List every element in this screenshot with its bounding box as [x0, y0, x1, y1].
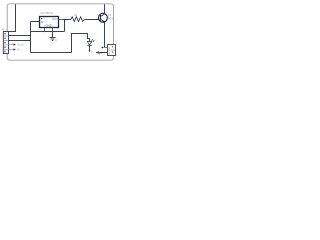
resistor R1	[71, 17, 85, 22]
connector pin5 stub with net arrow	[9, 48, 21, 52]
wire bottom ground bus	[31, 52, 72, 54]
U1 bottom pin stubs	[44, 28, 46, 32]
wire resistor to base	[84, 19, 99, 21]
svg-text:OUT: OUT	[52, 17, 58, 21]
junction gnd stem	[52, 31, 54, 33]
junction OUT/riser	[64, 19, 66, 21]
wire connector pin3	[9, 40, 32, 42]
wire vertical x30.5	[30, 22, 32, 53]
frame	[7, 4, 113, 60]
wire emitter down to J2 pin1	[105, 22, 108, 48]
wire vcc vertical from frame to connector pin1	[9, 4, 16, 31]
connector J1	[3, 32, 8, 54]
wire LED feed from bus	[72, 34, 90, 53]
ground symbol under U1	[49, 32, 55, 41]
wire bus to J2 pin2 with net arrow	[96, 51, 108, 55]
svg-text:GND: GND	[46, 23, 52, 27]
stub J2 pin1	[102, 47, 108, 49]
LED cathode lead with net arrow down	[89, 46, 94, 54]
wire connector pin2 to vertical bus	[9, 35, 31, 37]
junction emitter/stub	[101, 47, 103, 49]
transistor Q1	[98, 13, 107, 22]
connector J2	[108, 45, 116, 56]
LED D1	[87, 39, 94, 46]
svg-text:IN: IN	[41, 20, 44, 24]
svg-text:LM7805C: LM7805C	[40, 11, 54, 15]
wire to IC IN pin	[31, 21, 40, 23]
svg-text:Sond+: Sond+	[17, 43, 25, 47]
regulator U1 box	[40, 17, 59, 28]
wire collector up	[104, 4, 106, 14]
wire OUT net	[62, 19, 71, 21]
svg-text:D: D	[55, 38, 57, 42]
svg-text:Ma: Ma	[17, 48, 21, 52]
U1 right pin stub	[59, 19, 63, 21]
wire riser out net to gnd row	[64, 20, 66, 32]
svg-text:J1: J1	[2, 27, 5, 31]
connector pin4 stub with net arrow	[9, 43, 25, 47]
svg-text:BC5: BC5	[108, 16, 114, 20]
wire gnd row under IC	[31, 31, 65, 33]
